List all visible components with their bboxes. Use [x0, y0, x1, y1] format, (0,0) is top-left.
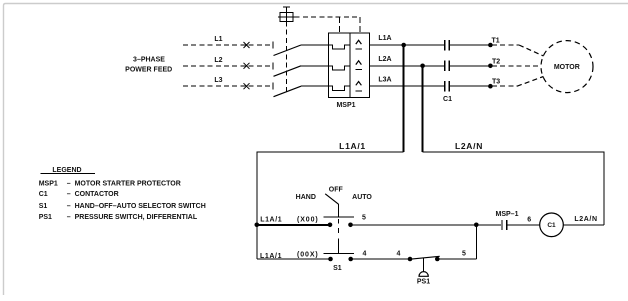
selector switch S1 lever	[325, 194, 338, 204]
svg-text:CONTACTOR: CONTACTOR	[75, 191, 119, 198]
svg-text:PS1: PS1	[417, 279, 430, 286]
node: left rail junction dot rung 1	[254, 223, 259, 228]
disconnect blade pole 1	[274, 45, 302, 56]
node: PS1 right terminal dot	[435, 257, 440, 262]
MSP1 breaker chevron pole 1	[356, 40, 362, 44]
svg-text:PS1: PS1	[39, 214, 52, 221]
svg-text:MOTOR STARTER PROTECTOR: MOTOR STARTER PROTECTOR	[75, 181, 181, 188]
pressure switch PS1 stem	[423, 258, 425, 272]
svg-text:L1A/1: L1A/1	[260, 217, 282, 224]
svg-text:MSP–1: MSP–1	[496, 211, 519, 218]
svg-text:T2: T2	[492, 58, 500, 65]
wire rung2 left segment	[257, 258, 331, 260]
disconnect pole 3 terminal tick	[272, 83, 274, 90]
svg-text:L1A: L1A	[378, 35, 391, 42]
wire T1 to motor (dashed horizontal part)	[492, 44, 519, 46]
node: rung1 contact terminal dot right (5)	[348, 223, 353, 228]
node L1 feed wire (dashed)	[183, 44, 271, 46]
svg-text:L2: L2	[214, 57, 222, 64]
disconnect operator symbol	[278, 7, 295, 22]
disconnect pole 2 terminal tick	[272, 62, 274, 69]
svg-text:HAND: HAND	[296, 194, 316, 201]
wire: drop from L1A to control ladder	[403, 45, 405, 152]
svg-text:L1: L1	[214, 36, 222, 43]
contactor C1 contact pole 3	[445, 81, 491, 92]
motor starter protector MSP1 box	[328, 33, 369, 97]
svg-text:MSP1: MSP1	[336, 102, 355, 109]
disconnect pole 1 terminal tick	[272, 42, 274, 49]
svg-text:L1A/1: L1A/1	[339, 141, 366, 151]
wire L1A	[370, 44, 444, 46]
svg-text:S1: S1	[333, 265, 342, 272]
selector switch S1 fixed bars and stem	[324, 204, 355, 254]
svg-text:C1: C1	[443, 96, 452, 103]
node: rung junction dot	[474, 223, 479, 228]
MSP1 breaker chevron pole 3	[356, 82, 362, 86]
wire pole 2 to MSP1	[301, 65, 328, 67]
svg-text:L2A/N: L2A/N	[574, 216, 597, 223]
node T1 junction dot	[488, 43, 493, 48]
X mark on L1	[244, 42, 250, 48]
svg-text:PRESSURE SWITCH, DIFFERENTIAL: PRESSURE SWITCH, DIFFERENTIAL	[75, 214, 198, 221]
svg-text:–: –	[67, 203, 71, 210]
svg-text:OFF: OFF	[329, 186, 344, 193]
pressure switch PS1 diaphragm	[419, 272, 428, 277]
wire: dashed link operator to MSP1 top	[295, 17, 360, 33]
contactor C1 contact pole 1	[445, 40, 491, 51]
svg-text:(00X): (00X)	[297, 251, 319, 258]
svg-text:(X00): (X00)	[297, 216, 319, 223]
svg-text:–: –	[67, 214, 71, 221]
svg-text:LEGEND: LEGEND	[52, 167, 81, 174]
svg-text:S1: S1	[39, 203, 48, 210]
contactor C1 contact pole 2	[445, 61, 491, 72]
node L2 feed wire (dashed)	[183, 65, 271, 67]
MSP1 overload element pole 2	[328, 66, 350, 70]
MSP1 breaker dash pole 3	[356, 90, 362, 92]
MSP1 breaker dash pole 2	[356, 69, 362, 71]
svg-text:L3A: L3A	[378, 77, 391, 84]
X mark on L2	[244, 63, 250, 69]
MSP1 breaker chevron pole 2	[356, 61, 362, 65]
wire: dashed linkage from operator down through switch poles	[286, 22, 288, 95]
wire L2A	[370, 65, 444, 67]
wire rung1 junction to MSP-1 contact	[476, 224, 501, 226]
legend underline	[40, 173, 95, 175]
svg-text:5: 5	[362, 215, 366, 222]
wire pole 3 to MSP1	[301, 85, 328, 87]
svg-text:4: 4	[397, 250, 401, 257]
svg-text:C1: C1	[39, 191, 48, 198]
svg-text:4: 4	[363, 250, 367, 257]
node: rung2 contact terminal dot right (4)	[348, 257, 353, 262]
svg-text:L3: L3	[214, 77, 222, 84]
MSP1 breaker dash pole 1	[356, 48, 362, 50]
wire T1 to motor (diagonal dashed)	[519, 45, 544, 56]
svg-text:–: –	[67, 181, 71, 188]
svg-text:T1: T1	[492, 38, 500, 45]
wire rung2 up to rung1	[475, 225, 477, 259]
wire rung1 to junction	[351, 224, 477, 226]
svg-text:3–PHASE: 3–PHASE	[133, 57, 165, 64]
MSP1 overload element pole 3	[328, 86, 350, 90]
node: rung2 contact terminal dot left	[328, 257, 333, 262]
motor	[541, 41, 593, 93]
svg-text:AUTO: AUTO	[352, 194, 372, 201]
wire rung2 right segment	[437, 258, 476, 260]
svg-text:MOTOR: MOTOR	[554, 64, 580, 71]
wire rung1 L1A/1 segment (bold)	[257, 224, 330, 226]
svg-text:L2A/N: L2A/N	[455, 141, 483, 151]
disconnect blade pole 2	[274, 66, 302, 77]
MSP1 overload element pole 1	[328, 45, 350, 49]
wire L1A/1 ladder top left	[257, 152, 404, 259]
node: rung1 contact terminal dot left	[328, 223, 333, 228]
wire T2 to motor (dashed)	[492, 65, 541, 67]
svg-text:5: 5	[462, 251, 466, 258]
svg-text:L2A: L2A	[378, 56, 391, 63]
wire L2A/N ladder top right	[423, 152, 604, 225]
node T2 junction dot	[488, 64, 493, 69]
svg-text:POWER FEED: POWER FEED	[125, 67, 172, 74]
svg-text:MSP1: MSP1	[39, 181, 58, 188]
svg-text:L1A/1: L1A/1	[260, 253, 282, 260]
node T3 junction dot	[488, 84, 493, 89]
disconnect blade pole 3	[274, 86, 302, 97]
svg-text:C1: C1	[547, 222, 556, 229]
wire coil to right rail	[563, 224, 604, 226]
wire L3A	[370, 85, 444, 87]
node L3 feed wire (dashed)	[183, 85, 271, 87]
wire T3 to motor (dashed horizontal part)	[492, 85, 517, 87]
svg-text:6: 6	[527, 217, 531, 224]
svg-text:–: –	[67, 191, 71, 198]
node: PS1 left terminal dot	[408, 257, 413, 262]
wire T3 to motor (diagonal dashed)	[517, 77, 544, 87]
svg-text:T3: T3	[492, 79, 500, 86]
MSP-1 auxiliary contact	[502, 220, 540, 230]
svg-text:HAND–OFF–AUTO SELECTOR SWITCH: HAND–OFF–AUTO SELECTOR SWITCH	[75, 203, 206, 210]
node L1A/1 tap junction dot	[401, 43, 406, 48]
wire: drop from L2A to control ladder	[422, 66, 424, 152]
contactor coil C1	[540, 213, 564, 237]
X mark on L3	[244, 83, 250, 89]
wire rung2 middle segment	[351, 258, 410, 260]
wire pole 1 to MSP1	[301, 44, 328, 46]
pressure switch PS1 blade	[410, 256, 440, 259]
node L2A/N tap junction dot	[420, 64, 425, 69]
